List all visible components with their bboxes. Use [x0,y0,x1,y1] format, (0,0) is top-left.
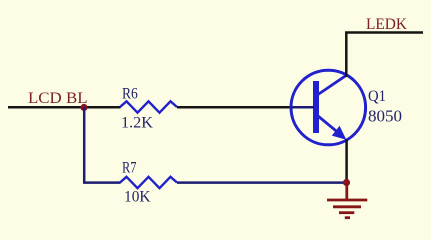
ground symbol bar 1 [327,199,367,202]
wire emitter down to ground node [345,140,348,183]
svg-text:Q1: Q1 [368,88,386,105]
ground symbol bar 4 [345,216,350,219]
resistor R7 [120,177,177,188]
junction node at emitter/R7/ground [343,179,350,186]
wire horizontal to R7 left terminal [83,181,121,184]
wire vertical from LCD_BL junction down [83,107,86,183]
svg-text:10K: 10K [124,189,151,206]
transistor Q1 base bar [313,81,319,133]
transistor Q1 circle body [291,70,366,145]
svg-text:1.2K: 1.2K [121,115,153,132]
junction node at LCD_BL [80,104,87,111]
ground symbol bar 2 [333,205,361,208]
svg-text:R7: R7 [122,160,137,177]
wire from R7 to emitter node [177,181,347,184]
wire from R6 to Q1 base [177,106,314,109]
svg-text:LEDK: LEDK [366,16,407,33]
transistor Q1 emitter arrowhead [332,126,347,140]
wire net LEDK horizontal [345,31,423,34]
transistor Q1 base pin wire inside circle [291,106,314,109]
svg-text:R6: R6 [122,86,138,103]
svg-text:LCD BL: LCD BL [28,90,88,107]
transistor Q1 collector stroke [318,75,346,94]
wire net LCD_BL horizontal segment [8,106,121,109]
ground symbol bar 3 [339,211,354,214]
ground stub wire [345,183,348,200]
resistor R6 [120,101,177,112]
transistor Q1 emitter stroke [318,116,338,133]
wire collector up to LEDK [345,33,348,78]
svg-text:8050: 8050 [368,107,402,126]
